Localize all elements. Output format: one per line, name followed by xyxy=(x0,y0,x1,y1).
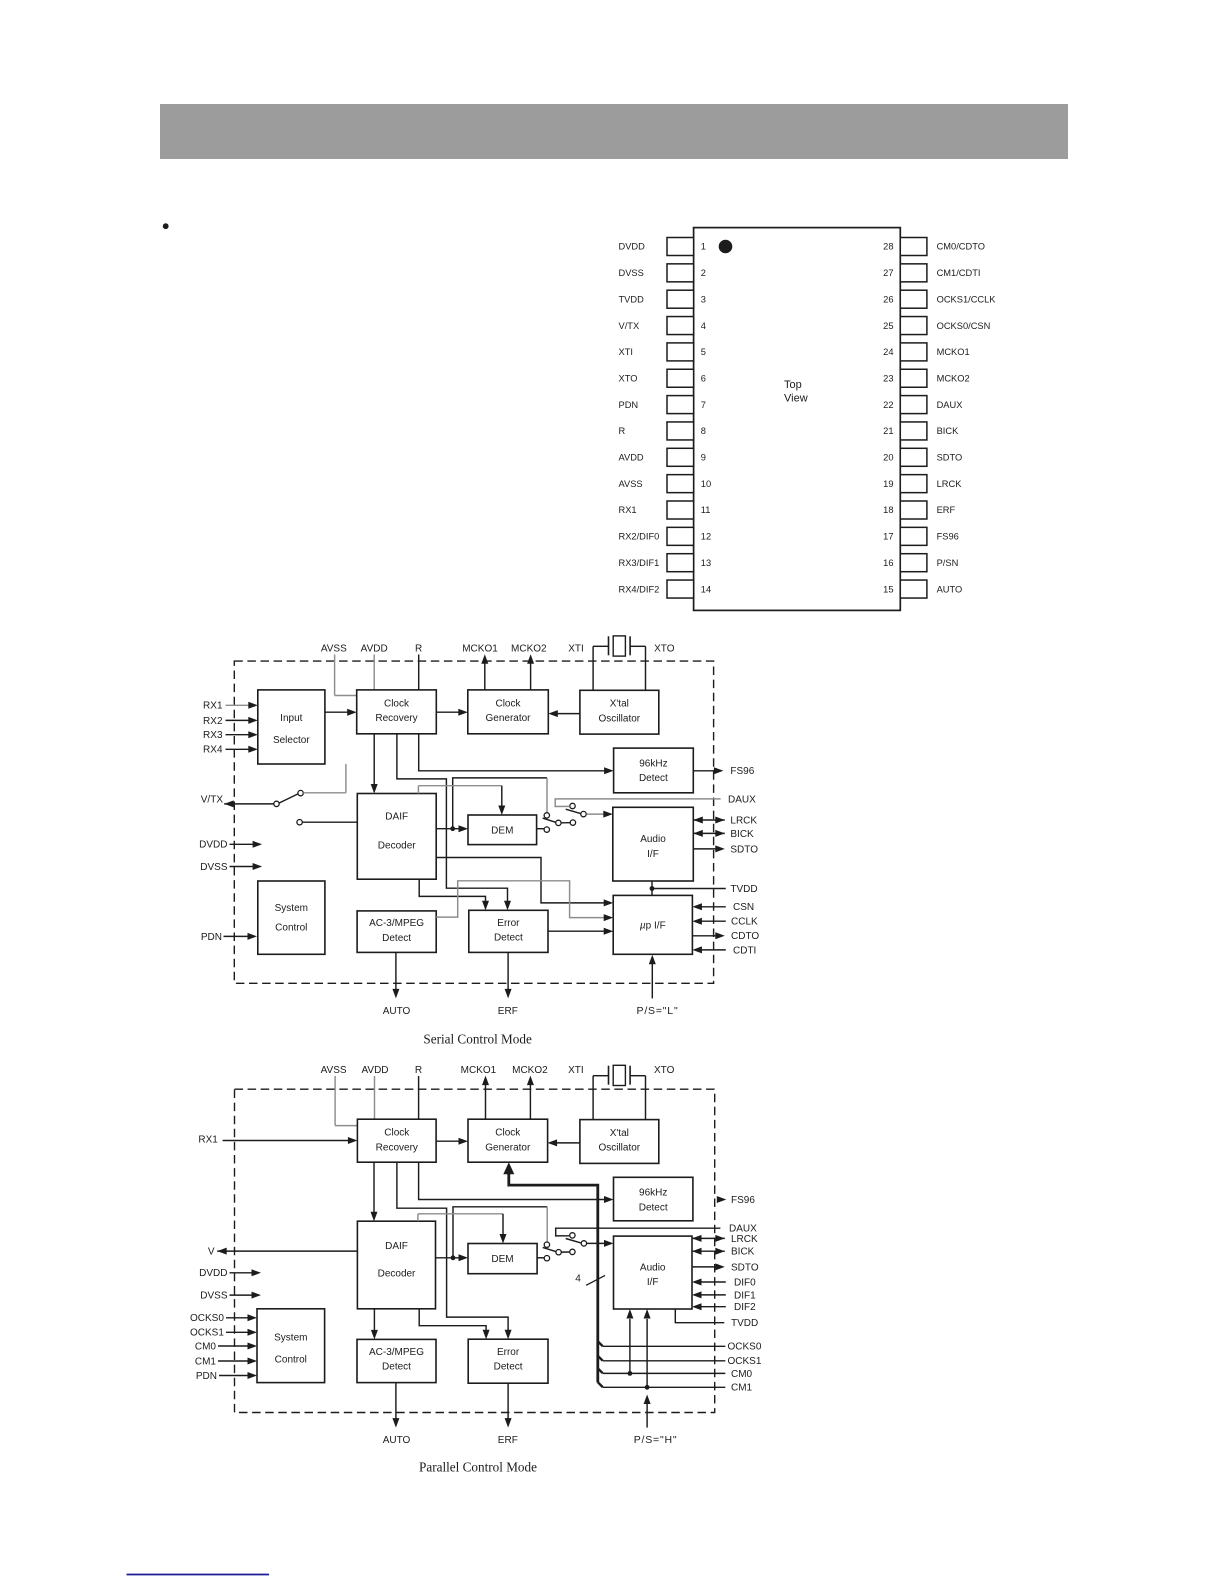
svg-text:V: V xyxy=(208,1246,215,1257)
svg-text:LRCK: LRCK xyxy=(937,479,963,489)
svg-text:Oscillator: Oscillator xyxy=(598,1143,640,1154)
svg-text:SDTO: SDTO xyxy=(731,1262,759,1273)
svg-text:V/TX: V/TX xyxy=(619,321,640,331)
svg-text:Clock: Clock xyxy=(384,698,410,709)
svg-text:Recovery: Recovery xyxy=(376,1142,418,1153)
svg-text:6: 6 xyxy=(701,373,706,383)
svg-text:RX4: RX4 xyxy=(203,745,223,756)
svg-text:RX3: RX3 xyxy=(203,730,223,741)
svg-text:CM0/CDTO: CM0/CDTO xyxy=(937,242,985,252)
svg-text:AUTO: AUTO xyxy=(937,584,963,594)
svg-text:10: 10 xyxy=(701,479,711,489)
svg-text:Top: Top xyxy=(784,379,802,391)
svg-text:CSN: CSN xyxy=(733,902,754,913)
svg-text:AVSS: AVSS xyxy=(321,643,347,654)
svg-text:OCKS0: OCKS0 xyxy=(190,1313,224,1324)
svg-text:DAUX: DAUX xyxy=(937,400,963,410)
svg-text:Clock: Clock xyxy=(495,1128,521,1139)
svg-text:23: 23 xyxy=(883,373,893,383)
svg-text:AC-3/MPEG: AC-3/MPEG xyxy=(369,918,424,929)
svg-text:17: 17 xyxy=(883,532,893,542)
svg-text:MCKO1: MCKO1 xyxy=(462,643,498,654)
svg-text:96kHz: 96kHz xyxy=(639,1188,667,1199)
svg-text:P/S="H": P/S="H" xyxy=(634,1434,678,1446)
svg-text:AUTO: AUTO xyxy=(383,1006,411,1017)
svg-text:19: 19 xyxy=(883,479,893,489)
svg-text:R: R xyxy=(415,1065,422,1076)
svg-text:Clock: Clock xyxy=(495,698,521,709)
svg-text:20: 20 xyxy=(883,453,893,463)
svg-text:4: 4 xyxy=(575,1274,581,1285)
svg-text:V/TX: V/TX xyxy=(201,795,224,806)
svg-text:18: 18 xyxy=(883,505,893,515)
svg-text:DAIF: DAIF xyxy=(385,1241,408,1252)
svg-text:14: 14 xyxy=(701,584,711,594)
svg-text:CM0: CM0 xyxy=(731,1369,753,1380)
svg-text:DEM: DEM xyxy=(491,825,513,836)
svg-text:P/SN: P/SN xyxy=(937,558,959,568)
svg-text:CM1: CM1 xyxy=(195,1356,217,1367)
svg-text:Selector: Selector xyxy=(273,735,310,746)
svg-text:Control: Control xyxy=(275,1355,307,1366)
svg-text:Input: Input xyxy=(280,713,302,724)
svg-text:ERF: ERF xyxy=(937,505,956,515)
svg-text:RX4/DIF2: RX4/DIF2 xyxy=(619,584,660,594)
svg-text:MCKO1: MCKO1 xyxy=(461,1065,497,1076)
svg-text:Serial Control Mode: Serial Control Mode xyxy=(423,1031,532,1046)
svg-text:27: 27 xyxy=(883,268,893,278)
svg-text:BICK: BICK xyxy=(937,426,959,436)
svg-text:Audio: Audio xyxy=(640,834,666,845)
svg-text:16: 16 xyxy=(883,558,893,568)
svg-text:Recovery: Recovery xyxy=(375,713,417,724)
svg-text:AVDD: AVDD xyxy=(361,1065,388,1076)
svg-text:XTO: XTO xyxy=(654,643,675,654)
svg-text:AVDD: AVDD xyxy=(361,643,388,654)
svg-text:RX3/DIF1: RX3/DIF1 xyxy=(619,558,660,568)
svg-text:RX1: RX1 xyxy=(198,1134,218,1145)
svg-text:9: 9 xyxy=(701,453,706,463)
svg-text:Generator: Generator xyxy=(485,713,531,724)
svg-text:PDN: PDN xyxy=(201,932,222,943)
svg-text:DVSS: DVSS xyxy=(619,268,644,278)
svg-text:X'tal: X'tal xyxy=(610,699,629,710)
svg-text:TVDD: TVDD xyxy=(730,884,757,895)
svg-text:DVDD: DVDD xyxy=(199,840,227,851)
svg-text:CM0: CM0 xyxy=(195,1341,217,1352)
svg-text:CM1/CDTI: CM1/CDTI xyxy=(937,268,981,278)
svg-text:Decoder: Decoder xyxy=(378,840,416,851)
svg-text:Detect: Detect xyxy=(639,773,668,784)
svg-text:I/F: I/F xyxy=(647,849,659,860)
svg-text:SDTO: SDTO xyxy=(730,844,758,855)
svg-text:Detect: Detect xyxy=(494,1362,523,1373)
svg-text:5: 5 xyxy=(701,347,706,357)
svg-text:12: 12 xyxy=(701,532,711,542)
svg-text:System: System xyxy=(274,1333,307,1344)
svg-text:Detect: Detect xyxy=(382,1362,411,1373)
svg-text:Oscillator: Oscillator xyxy=(598,713,640,724)
svg-text:I/F: I/F xyxy=(647,1277,659,1288)
svg-text:26: 26 xyxy=(883,294,893,304)
svg-text:Detect: Detect xyxy=(639,1202,668,1213)
svg-text:LRCK: LRCK xyxy=(730,815,757,826)
svg-text:7: 7 xyxy=(701,400,706,410)
svg-text:13: 13 xyxy=(701,558,711,568)
svg-text:BICK: BICK xyxy=(730,829,754,840)
svg-text:96kHz: 96kHz xyxy=(639,758,667,769)
svg-text:CM1: CM1 xyxy=(731,1383,753,1394)
svg-text:RX1: RX1 xyxy=(619,505,637,515)
svg-text:LRCK: LRCK xyxy=(731,1234,758,1245)
svg-text:DVDD: DVDD xyxy=(199,1268,227,1279)
svg-text:OCKS0: OCKS0 xyxy=(728,1342,762,1353)
svg-text:R: R xyxy=(415,643,422,654)
svg-text:SDTO: SDTO xyxy=(937,453,963,463)
svg-text:FS96: FS96 xyxy=(730,766,754,777)
svg-text:System: System xyxy=(275,903,308,914)
svg-text:OCKS1/CCLK: OCKS1/CCLK xyxy=(937,294,997,304)
svg-text:µp I/F: µp I/F xyxy=(640,920,666,931)
svg-text:DAUX: DAUX xyxy=(728,794,756,805)
svg-text:AC-3/MPEG: AC-3/MPEG xyxy=(369,1347,424,1358)
svg-text:1: 1 xyxy=(701,242,706,252)
svg-text:FS96: FS96 xyxy=(731,1195,755,1206)
svg-text:Control: Control xyxy=(275,923,307,934)
svg-text:4: 4 xyxy=(701,321,706,331)
svg-text:15: 15 xyxy=(883,584,893,594)
svg-text:Decoder: Decoder xyxy=(378,1268,416,1279)
svg-text:OCKS1: OCKS1 xyxy=(728,1356,762,1367)
svg-text:Error: Error xyxy=(497,1347,520,1358)
svg-text:OCKS0/CSN: OCKS0/CSN xyxy=(937,321,991,331)
svg-text:AUTO: AUTO xyxy=(383,1435,411,1446)
svg-text:2: 2 xyxy=(701,268,706,278)
svg-text:DVDD: DVDD xyxy=(619,242,646,252)
svg-text:XTI: XTI xyxy=(568,643,584,654)
svg-text:ERF: ERF xyxy=(498,1435,518,1446)
svg-text:Detect: Detect xyxy=(382,933,411,944)
svg-text:RX1: RX1 xyxy=(203,701,223,712)
svg-text:MCKO2: MCKO2 xyxy=(512,1065,548,1076)
svg-text:AVSS: AVSS xyxy=(619,479,643,489)
svg-text:Parallel Control Mode: Parallel Control Mode xyxy=(419,1459,537,1474)
svg-text:TVDD: TVDD xyxy=(731,1318,758,1329)
svg-text:RX2/DIF0: RX2/DIF0 xyxy=(619,532,660,542)
svg-text:DEM: DEM xyxy=(491,1254,513,1265)
svg-text:RX2: RX2 xyxy=(203,716,223,727)
svg-text:MCKO2: MCKO2 xyxy=(511,643,547,654)
svg-text:8: 8 xyxy=(701,426,706,436)
svg-text:PDN: PDN xyxy=(196,1371,217,1382)
svg-text:Generator: Generator xyxy=(485,1142,531,1153)
svg-text:Clock: Clock xyxy=(384,1128,410,1139)
svg-text:DAIF: DAIF xyxy=(385,812,408,823)
svg-text:PDN: PDN xyxy=(619,400,639,410)
svg-text:3: 3 xyxy=(701,294,706,304)
svg-text:11: 11 xyxy=(701,505,711,515)
svg-text:CDTI: CDTI xyxy=(733,945,756,956)
svg-text:DIF0: DIF0 xyxy=(734,1277,756,1288)
svg-text:CCLK: CCLK xyxy=(731,917,758,928)
svg-text:24: 24 xyxy=(883,347,893,357)
svg-text:R: R xyxy=(619,426,626,436)
svg-text:MCKO2: MCKO2 xyxy=(937,373,970,383)
svg-text:Error: Error xyxy=(497,918,520,929)
svg-text:DIF1: DIF1 xyxy=(734,1290,756,1301)
svg-text:FS96: FS96 xyxy=(937,532,959,542)
svg-text:OCKS1: OCKS1 xyxy=(190,1328,224,1339)
svg-text:25: 25 xyxy=(883,321,893,331)
svg-text:CDTO: CDTO xyxy=(731,931,759,942)
svg-text:AVSS: AVSS xyxy=(321,1065,347,1076)
svg-text:DIF2: DIF2 xyxy=(734,1302,756,1313)
svg-text:Audio: Audio xyxy=(640,1262,666,1273)
svg-text:AVDD: AVDD xyxy=(619,453,644,463)
svg-text:28: 28 xyxy=(883,242,893,252)
svg-text:22: 22 xyxy=(883,400,893,410)
svg-text:XTO: XTO xyxy=(654,1065,675,1076)
svg-text:ERF: ERF xyxy=(498,1006,518,1017)
svg-text:DVSS: DVSS xyxy=(200,862,228,873)
svg-text:XTI: XTI xyxy=(568,1065,584,1076)
svg-text:BICK: BICK xyxy=(731,1247,755,1258)
svg-text:Detect: Detect xyxy=(494,933,523,944)
svg-text:DVSS: DVSS xyxy=(200,1291,228,1302)
svg-text:XTI: XTI xyxy=(619,347,633,357)
svg-text:XTO: XTO xyxy=(619,373,638,383)
svg-text:21: 21 xyxy=(883,426,893,436)
svg-text:View: View xyxy=(784,393,808,405)
svg-text:P/S="L": P/S="L" xyxy=(637,1005,679,1017)
svg-text:MCKO1: MCKO1 xyxy=(937,347,970,357)
svg-text:TVDD: TVDD xyxy=(619,294,645,304)
svg-text:X'tal: X'tal xyxy=(610,1128,629,1139)
